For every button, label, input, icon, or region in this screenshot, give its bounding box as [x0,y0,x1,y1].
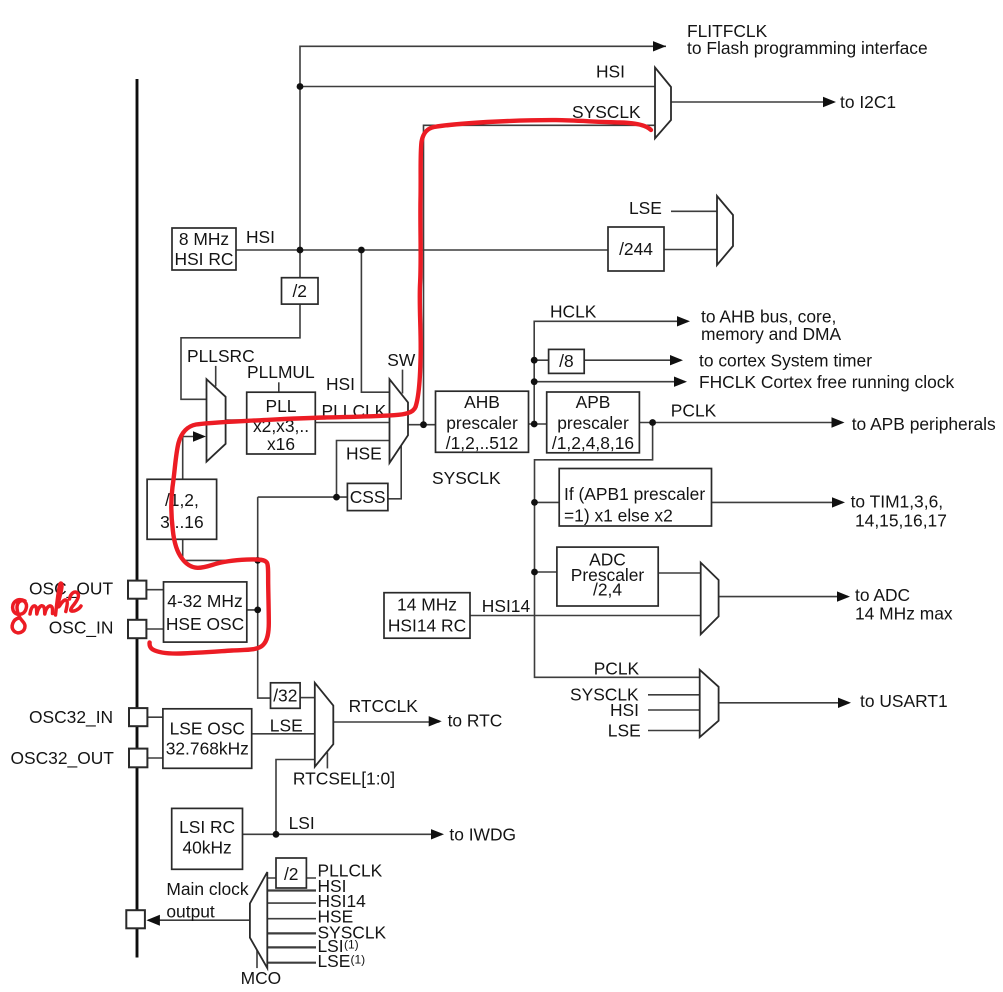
svg-text:to Flash programming interface: to Flash programming interface [687,38,928,58]
svg-text:RTCCLK: RTCCLK [349,696,419,716]
svg-text:to RTC: to RTC [448,711,503,731]
svg-text:/244: /244 [619,239,653,259]
svg-text:If (APB1 prescaler: If (APB1 prescaler [564,484,705,504]
svg-text:PLL: PLL [266,396,297,416]
svg-text:LSE: LSE [318,951,351,971]
svg-text:14 MHz: 14 MHz [397,595,457,615]
svg-text:prescaler: prescaler [446,413,518,433]
svg-text:LSE: LSE [629,198,662,218]
svg-text:PCLK: PCLK [594,659,640,679]
svg-text:SYSCLK: SYSCLK [432,468,501,488]
svg-text:/1,2,4,8,16: /1,2,4,8,16 [552,433,634,453]
svg-text:to IWDG: to IWDG [449,825,516,845]
svg-text:output: output [166,902,215,922]
svg-text:to TIM1,3,6,: to TIM1,3,6, [851,492,943,512]
svg-text:/32: /32 [273,686,297,706]
svg-text:14 MHz max: 14 MHz max [855,604,953,624]
svg-text:x16: x16 [267,434,295,454]
svg-text:HSE OSC: HSE OSC [166,614,244,634]
svg-text:PLLSRC: PLLSRC [187,346,255,366]
svg-text:to ADC: to ADC [855,585,910,605]
svg-text:HSI: HSI [610,700,639,720]
svg-text:memory and DMA: memory and DMA [701,324,842,344]
svg-text:(1): (1) [344,938,359,952]
svg-text:AHB: AHB [464,392,500,412]
svg-text:FHCLK Cortex free running cloc: FHCLK Cortex free running clock [699,372,954,392]
svg-text:OSC_IN: OSC_IN [49,618,114,638]
svg-text:to USART1: to USART1 [860,691,948,711]
svg-text:OSC32_OUT: OSC32_OUT [11,748,115,768]
svg-text:to APB peripherals: to APB peripherals [852,414,996,434]
svg-text:PCLK: PCLK [671,401,717,421]
svg-text:14,15,16,17: 14,15,16,17 [855,511,947,531]
svg-text:4-32 MHz: 4-32 MHz [167,591,242,611]
svg-text:LSE OSC: LSE OSC [170,719,245,739]
svg-text:HSI RC: HSI RC [175,249,234,269]
svg-text:LSI RC: LSI RC [179,817,235,837]
svg-text:8 MHz: 8 MHz [179,229,229,249]
svg-text:/2: /2 [292,281,307,301]
svg-text:OSC32_IN: OSC32_IN [29,707,113,727]
svg-text:HSI: HSI [596,62,625,82]
svg-text:/2: /2 [284,864,299,884]
svg-text:/2,4: /2,4 [593,580,622,600]
svg-text:HSE: HSE [346,444,382,464]
svg-text:PLLMUL: PLLMUL [247,362,315,382]
svg-text:HSI: HSI [326,374,355,394]
svg-text:=1) x1 else x2: =1) x1 else x2 [564,506,673,526]
svg-text:RTCSEL[1:0]: RTCSEL[1:0] [293,769,395,789]
svg-text:to cortex System timer: to cortex System timer [699,351,872,371]
svg-text:HSI: HSI [246,227,275,247]
svg-text:MCO: MCO [241,968,282,988]
svg-text:LSI: LSI [289,813,315,833]
svg-text:SW: SW [387,350,416,370]
svg-text:/8: /8 [559,351,574,371]
svg-text:APB: APB [576,392,611,412]
svg-text:/1,2,..512: /1,2,..512 [446,433,519,453]
svg-text:CSS: CSS [350,487,386,507]
svg-text:Main clock: Main clock [166,879,248,899]
svg-text:LSE: LSE [270,716,303,736]
svg-text:(1): (1) [351,953,366,967]
svg-text:3,..16: 3,..16 [160,512,204,532]
svg-text:HCLK: HCLK [550,302,597,322]
svg-text:prescaler: prescaler [557,413,629,433]
svg-text:HSI14 RC: HSI14 RC [388,616,466,636]
svg-text:HSI14: HSI14 [482,596,531,616]
svg-text:40kHz: 40kHz [182,838,231,858]
svg-text:32.768kHz: 32.768kHz [166,739,249,759]
svg-text:to I2C1: to I2C1 [840,92,896,112]
svg-text:LSE: LSE [608,721,641,741]
